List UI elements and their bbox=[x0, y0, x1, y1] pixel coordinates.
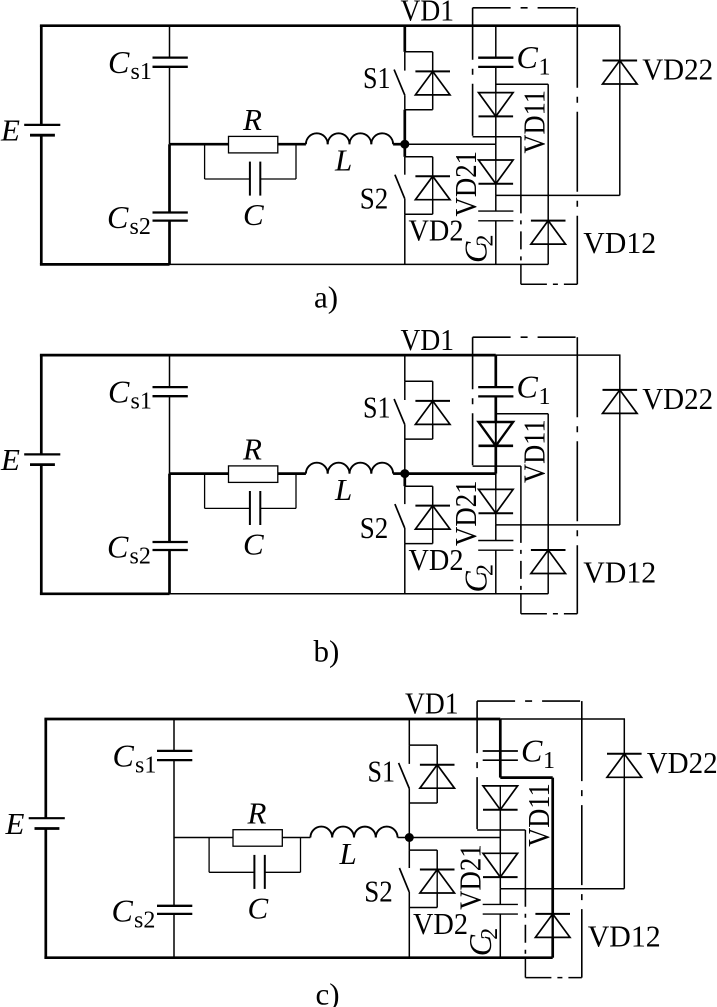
label S1 bbox=[363, 389, 391, 424]
voltage source E bbox=[24, 454, 60, 464]
wire C2 to bottom rail bbox=[495, 550, 497, 594]
dash-dot cell right edge bbox=[576, 8, 578, 285]
wire Cs2 to bottom rail bbox=[168, 221, 171, 265]
label S2 bbox=[360, 510, 389, 545]
wire VD11 top to VD12 stub bbox=[500, 776, 552, 779]
capacitor Cs1 bbox=[157, 751, 192, 760]
capacitor C bbox=[254, 855, 264, 889]
label VD11 bbox=[521, 783, 556, 847]
svg-text:C: C bbox=[107, 528, 129, 564]
svg-text:b): b) bbox=[314, 634, 340, 669]
wire node to S2 bbox=[403, 144, 406, 157]
svg-text:VD22: VD22 bbox=[647, 745, 717, 780]
wire VD21 to W1 junction bbox=[495, 184, 497, 196]
capacitor C1 bbox=[478, 58, 513, 67]
wire C1 to VD11 bbox=[494, 396, 497, 422]
wire Cs2 to bottom rail bbox=[173, 914, 175, 958]
label E bbox=[5, 806, 25, 841]
svg-text:S1: S1 bbox=[368, 753, 396, 788]
wire mid rail to R bbox=[170, 143, 229, 146]
wire L to node bbox=[393, 472, 405, 475]
wire mid rail to R bbox=[170, 472, 229, 475]
svg-text:S2: S2 bbox=[360, 510, 389, 545]
wire Cs column to Cs2 bbox=[168, 474, 171, 542]
wire VD2 lower lead bbox=[432, 529, 434, 544]
resistor R bbox=[229, 466, 278, 483]
node A junction dot bbox=[405, 833, 414, 842]
diode VD11 bbox=[479, 422, 514, 446]
wire VD12 upper lead bbox=[547, 84, 549, 220]
svg-text:VD12: VD12 bbox=[583, 225, 656, 260]
label S2 bbox=[364, 874, 393, 909]
wire W1 junction to C2 bbox=[495, 195, 497, 211]
wire node junction to VD21 bbox=[495, 474, 497, 490]
switch S2 bbox=[395, 157, 405, 214]
wire VD11 to node junction bbox=[499, 810, 501, 838]
svg-text:VD2: VD2 bbox=[409, 542, 464, 577]
wire column to VD22 return bbox=[496, 524, 620, 526]
wire VD12 upper lead bbox=[547, 414, 549, 550]
svg-text:C: C bbox=[517, 368, 539, 404]
wire Cs column upper bbox=[169, 26, 171, 58]
wire node to snubber column bbox=[405, 472, 496, 475]
wire left vertical upper bbox=[40, 26, 43, 125]
label C bbox=[243, 197, 264, 232]
label VD22 bbox=[642, 52, 713, 87]
wire bottom rail (bold part) bbox=[40, 592, 170, 595]
capacitor Cs2 bbox=[153, 542, 188, 550]
wire VD12 upper lead bbox=[551, 778, 554, 914]
node A junction dot bbox=[400, 140, 409, 149]
label C2 bbox=[458, 564, 499, 593]
wire left vertical lower bbox=[44, 829, 47, 958]
svg-text:1: 1 bbox=[543, 748, 555, 774]
wire VD12 lower lead bbox=[547, 244, 549, 264]
wire VD1 upper lead bbox=[432, 52, 434, 72]
svg-text:c): c) bbox=[316, 977, 340, 1007]
label Cs2 bbox=[112, 892, 156, 933]
label C bbox=[243, 526, 264, 561]
wire S1 to node bbox=[403, 110, 406, 145]
diode VD21 bbox=[479, 160, 514, 184]
label L bbox=[339, 836, 357, 871]
capacitor Cs2 bbox=[153, 213, 188, 221]
wire C loop right bbox=[260, 474, 296, 509]
wire VD11 to node junction bbox=[494, 446, 497, 474]
wire bottom hook bbox=[521, 594, 577, 614]
wire Cs column middle bbox=[169, 67, 171, 144]
wire snubber notch vertical bbox=[520, 137, 522, 196]
wire top rail to VD22 bbox=[619, 355, 621, 390]
wire C2 to bottom rail bbox=[499, 914, 501, 958]
resistor R bbox=[229, 136, 278, 153]
diode VD21 bbox=[479, 489, 514, 513]
svg-text:2: 2 bbox=[473, 235, 499, 247]
label VD11 bbox=[517, 419, 552, 483]
svg-text:1: 1 bbox=[539, 55, 551, 81]
switch S1 bbox=[394, 381, 405, 439]
wire R to L bbox=[278, 472, 306, 475]
svg-text:S1: S1 bbox=[363, 60, 391, 95]
svg-text:C: C bbox=[521, 732, 543, 768]
dash-dot cell two left edge bbox=[520, 525, 522, 594]
wire top rail (bold part) bbox=[40, 24, 620, 27]
wire C loop right bbox=[265, 838, 301, 873]
dash-dot cell left edge bbox=[476, 701, 478, 830]
wire VD1 upper lead bbox=[432, 381, 434, 401]
svg-text:C: C bbox=[107, 199, 129, 235]
diode VD12 bbox=[531, 550, 566, 574]
wire Cs column middle bbox=[169, 396, 171, 473]
label E bbox=[0, 113, 20, 148]
wire VD21 to W1 junction bbox=[495, 513, 497, 525]
svg-text:C: C bbox=[517, 39, 539, 75]
label S1 bbox=[368, 753, 396, 788]
label VD11 bbox=[517, 90, 552, 154]
wire Cs column upper bbox=[169, 355, 171, 387]
diode VD1 bbox=[420, 765, 455, 789]
label R bbox=[242, 102, 262, 137]
svg-text:VD11: VD11 bbox=[517, 90, 552, 154]
label R bbox=[247, 795, 267, 830]
label R bbox=[242, 431, 262, 466]
capacitor C2 bbox=[478, 211, 513, 221]
dash-dot cell two left edge bbox=[524, 889, 526, 958]
diode VD11 bbox=[483, 786, 518, 810]
diode VD22 bbox=[603, 61, 638, 85]
wire top rail to C1 bbox=[495, 26, 497, 58]
wire VD12 lower lead bbox=[551, 937, 554, 957]
label Cs2 bbox=[107, 528, 151, 569]
svg-text:S2: S2 bbox=[364, 874, 393, 909]
wire S2 top stub bbox=[405, 156, 433, 158]
svg-text:s1: s1 bbox=[135, 752, 156, 778]
wire node to snubber column bbox=[405, 143, 496, 145]
wire top rail to S1 bbox=[403, 26, 406, 52]
dash-dot cell right edge bbox=[581, 701, 583, 978]
wire S1 bottom stub bbox=[405, 109, 433, 111]
wire node junction to VD21 bbox=[495, 144, 497, 160]
wire S1 top stub bbox=[409, 744, 437, 746]
svg-text:R: R bbox=[242, 102, 262, 137]
dash-dot cell top edge bbox=[473, 7, 578, 9]
switch S1 bbox=[399, 745, 410, 803]
wire S1 to node bbox=[404, 439, 406, 474]
label VD22 bbox=[647, 745, 717, 780]
inductor L bbox=[310, 827, 397, 838]
wire snubber notch horizontal bbox=[473, 465, 521, 467]
label E bbox=[0, 442, 20, 477]
wire top rail to S1 bbox=[404, 355, 406, 381]
wire top rail to S1 bbox=[408, 719, 410, 745]
label VD21 bbox=[448, 151, 483, 217]
wire S1 to node bbox=[408, 803, 410, 838]
wire C loop left bbox=[209, 838, 254, 873]
label VD12 bbox=[583, 225, 656, 260]
diode VD1 bbox=[415, 401, 450, 425]
wire W1 junction to C2 bbox=[495, 525, 497, 541]
diode VD21 bbox=[483, 853, 518, 877]
wire S2 bottom stub bbox=[405, 213, 433, 215]
wire VD22 to return wire bbox=[623, 777, 625, 888]
diode VD2 bbox=[415, 506, 450, 529]
wire VD2 upper lead bbox=[432, 157, 434, 176]
inductor L bbox=[306, 133, 393, 144]
capacitor Cs1 bbox=[153, 58, 188, 67]
capacitor C2 bbox=[478, 541, 513, 551]
svg-text:2: 2 bbox=[473, 564, 499, 576]
wire top rail (thin part) bbox=[496, 354, 621, 356]
switch S1 bbox=[394, 52, 405, 110]
wire R to L bbox=[282, 837, 310, 839]
wire snubber notch horizontal bbox=[477, 829, 525, 831]
label S2 bbox=[360, 180, 389, 215]
diode VD2 bbox=[420, 870, 455, 894]
svg-text:R: R bbox=[247, 795, 267, 830]
svg-text:L: L bbox=[334, 472, 352, 507]
label VD22 bbox=[642, 381, 713, 416]
svg-text:VD11: VD11 bbox=[521, 783, 556, 847]
label VD2 bbox=[409, 542, 464, 577]
wire VD22 to return wire bbox=[619, 84, 621, 195]
wire C2 to bottom rail bbox=[495, 221, 497, 265]
label VD1 bbox=[401, 322, 455, 357]
wire L to node bbox=[393, 143, 405, 146]
label Cs2 bbox=[107, 199, 151, 240]
svg-text:C: C bbox=[108, 44, 130, 80]
svg-text:R: R bbox=[242, 431, 262, 466]
svg-text:VD12: VD12 bbox=[583, 555, 656, 590]
wire bottom rail (thin part) bbox=[170, 263, 549, 265]
label VD12 bbox=[588, 919, 661, 954]
wire S2 bottom stub bbox=[405, 543, 433, 545]
svg-text:VD1: VD1 bbox=[405, 686, 459, 721]
wire S1 bottom stub bbox=[405, 438, 433, 440]
label C2 bbox=[462, 928, 503, 957]
wire left vertical lower bbox=[40, 465, 43, 594]
wire S2 top stub bbox=[405, 485, 433, 487]
wire C loop left bbox=[205, 144, 250, 179]
capacitor Cs2 bbox=[157, 906, 192, 914]
wire column to VD22 return bbox=[500, 888, 624, 890]
label Cs1 bbox=[108, 373, 152, 414]
svg-text:L: L bbox=[334, 143, 352, 178]
svg-text:s2: s2 bbox=[134, 907, 155, 933]
inductor L bbox=[306, 463, 393, 474]
label Cs1 bbox=[113, 737, 157, 778]
wire top rail to VD22 bbox=[619, 26, 621, 61]
switch S2 bbox=[395, 486, 405, 543]
wire S2 top stub bbox=[409, 849, 437, 851]
wire node to snubber column bbox=[409, 837, 500, 839]
capacitor Cs1 bbox=[153, 387, 188, 396]
wire VD1 lower lead bbox=[436, 788, 438, 803]
wire bottom rail (bold part) bbox=[40, 263, 170, 266]
wire Cs column upper bbox=[173, 719, 175, 751]
wire VD2 upper lead bbox=[432, 486, 434, 505]
wire S2 to bottom rail bbox=[404, 544, 406, 594]
wire C loop right bbox=[260, 144, 296, 179]
wire node junction to VD21 bbox=[499, 838, 501, 854]
dash-dot cell left edge bbox=[472, 8, 474, 137]
dash-dot cell left edge bbox=[472, 337, 474, 466]
wire left vertical upper bbox=[44, 719, 47, 818]
wire bottom hook bbox=[521, 264, 577, 284]
wire C1 through-lead (bold path) bbox=[499, 751, 502, 778]
capacitor C bbox=[250, 491, 260, 525]
wire node to S2 bbox=[403, 474, 406, 487]
svg-text:C: C bbox=[243, 526, 264, 561]
wire VD22 to return wire bbox=[619, 413, 621, 525]
wire top rail to C1 bbox=[499, 719, 502, 751]
label C1 bbox=[517, 39, 551, 81]
wire node to S2 bbox=[408, 838, 410, 851]
diode VD11 bbox=[479, 93, 514, 117]
caption a) bbox=[314, 280, 338, 315]
wire VD1 upper lead bbox=[436, 745, 438, 765]
label L bbox=[334, 143, 352, 178]
wire top rail (bold part) bbox=[44, 718, 500, 721]
wire top rail (thin part) bbox=[500, 718, 625, 720]
svg-text:VD2: VD2 bbox=[413, 906, 468, 941]
wire bottom hook bbox=[525, 958, 581, 978]
diode VD2 bbox=[415, 176, 450, 200]
svg-text:s1: s1 bbox=[131, 388, 152, 414]
wire top rail (bold part) bbox=[40, 354, 496, 357]
capacitor C1 bbox=[478, 387, 513, 396]
svg-text:s2: s2 bbox=[130, 543, 151, 569]
capacitor C bbox=[250, 162, 260, 196]
label VD21 bbox=[452, 844, 487, 910]
diode VD12 bbox=[531, 221, 566, 245]
wire VD11 top to VD12 stub bbox=[496, 413, 548, 415]
label VD1 bbox=[405, 686, 459, 721]
svg-text:C: C bbox=[243, 197, 264, 232]
svg-text:C: C bbox=[108, 373, 130, 409]
label C bbox=[248, 890, 269, 925]
wire VD11 top to VD12 stub bbox=[496, 83, 548, 85]
svg-text:L: L bbox=[339, 836, 357, 871]
switch S2 bbox=[399, 850, 409, 907]
svg-text:2: 2 bbox=[477, 928, 503, 940]
wire Cs column to Cs2 bbox=[168, 144, 171, 212]
wire S2 bottom stub bbox=[409, 907, 437, 909]
label L bbox=[334, 472, 352, 507]
svg-text:C: C bbox=[113, 737, 135, 773]
wire Cs column to Cs2 bbox=[173, 838, 175, 906]
capacitor C2 bbox=[483, 904, 518, 914]
diode VD12 bbox=[535, 914, 570, 938]
label Cs1 bbox=[108, 44, 152, 85]
svg-text:VD1: VD1 bbox=[401, 0, 455, 27]
wire S1 top stub bbox=[405, 51, 433, 53]
svg-text:VD21: VD21 bbox=[448, 151, 483, 217]
wire top rail to VD22 bbox=[623, 719, 625, 754]
wire VD1 lower lead bbox=[432, 424, 434, 439]
svg-text:E: E bbox=[5, 806, 25, 841]
svg-text:VD1: VD1 bbox=[401, 322, 455, 357]
wire left vertical lower bbox=[40, 135, 43, 264]
wire C loop left bbox=[205, 474, 250, 509]
dash-dot cell right edge bbox=[576, 337, 578, 614]
label VD2 bbox=[409, 213, 464, 248]
svg-text:VD22: VD22 bbox=[642, 52, 713, 87]
dash-dot cell top edge bbox=[473, 336, 578, 338]
dash-dot cell two left edge bbox=[520, 195, 522, 264]
svg-text:C: C bbox=[248, 890, 269, 925]
svg-text:a): a) bbox=[314, 280, 338, 315]
svg-text:S2: S2 bbox=[360, 180, 389, 215]
wire R to L bbox=[278, 143, 306, 146]
label VD2 bbox=[413, 906, 468, 941]
wire snubber notch vertical bbox=[524, 830, 526, 889]
wire S2 to bottom rail bbox=[408, 908, 410, 958]
caption b) bbox=[314, 634, 340, 669]
svg-text:VD12: VD12 bbox=[588, 919, 661, 954]
svg-text:C: C bbox=[112, 892, 134, 928]
diode VD1 bbox=[415, 71, 450, 95]
node A junction dot bbox=[400, 469, 409, 478]
diode VD22 bbox=[603, 390, 638, 414]
label VD1 bbox=[401, 0, 455, 27]
svg-text:VD21: VD21 bbox=[448, 480, 483, 546]
dash-dot cell top edge bbox=[477, 700, 582, 702]
wire column to VD22 return bbox=[496, 194, 620, 196]
wire mid rail to R bbox=[174, 837, 233, 839]
wire bottom rail (bold part) bbox=[44, 956, 552, 959]
wire snubber notch vertical bbox=[520, 466, 522, 525]
wire top rail to C1 bbox=[494, 355, 497, 387]
resistor R bbox=[233, 830, 282, 847]
svg-text:VD11: VD11 bbox=[517, 419, 552, 483]
wire W1 junction to C2 bbox=[499, 889, 501, 905]
label C1 bbox=[521, 732, 555, 774]
wire L to node bbox=[398, 837, 410, 839]
wire Cs2 to bottom rail bbox=[168, 550, 171, 594]
wire S2 to bottom rail bbox=[404, 214, 406, 264]
label VD21 bbox=[448, 480, 483, 546]
label VD12 bbox=[583, 555, 656, 590]
label C1 bbox=[517, 368, 551, 410]
voltage source E bbox=[29, 818, 65, 828]
wire bottom rail (thin part) bbox=[170, 593, 549, 595]
caption c) bbox=[316, 977, 340, 1007]
wire VD2 lower lead bbox=[432, 200, 434, 215]
wire VD2 lower lead bbox=[436, 893, 438, 908]
voltage source E bbox=[24, 125, 60, 135]
wire VD1 lower lead bbox=[432, 95, 434, 110]
svg-text:s1: s1 bbox=[131, 59, 152, 85]
diode VD22 bbox=[607, 754, 642, 778]
wire VD21 to W1 junction bbox=[499, 877, 501, 889]
label C2 bbox=[458, 235, 499, 264]
wire VD2 upper lead bbox=[436, 850, 438, 869]
svg-text:E: E bbox=[0, 442, 20, 477]
wire S1 top stub bbox=[405, 380, 433, 382]
label S1 bbox=[363, 60, 391, 95]
svg-text:s2: s2 bbox=[130, 214, 151, 240]
wire snubber notch horizontal bbox=[473, 136, 521, 138]
wire C1 to VD11 bbox=[495, 67, 497, 93]
svg-text:VD22: VD22 bbox=[642, 381, 713, 416]
wire VD11 to node junction bbox=[495, 116, 497, 144]
wire VD12 lower lead bbox=[547, 574, 549, 594]
capacitor C1 bbox=[483, 751, 518, 760]
wire S1 bottom stub bbox=[409, 802, 437, 804]
svg-text:VD2: VD2 bbox=[409, 213, 464, 248]
wire Cs column middle bbox=[173, 760, 175, 837]
svg-text:E: E bbox=[0, 113, 20, 148]
